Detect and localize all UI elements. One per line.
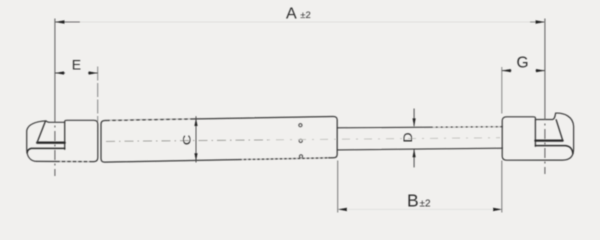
svg-text:B: B	[407, 190, 419, 210]
svg-text:±2: ±2	[420, 199, 431, 210]
svg-text:C: C	[181, 135, 194, 146]
dimension C bottom arrow	[194, 153, 197, 161]
svg-text:±2: ±2	[300, 10, 311, 21]
dimension E right arrow	[89, 71, 98, 74]
dimension D top arrow	[413, 118, 416, 126]
piston rod top edge	[337, 127, 502, 128]
vent hole middle	[299, 139, 302, 142]
dimension G line left segment	[502, 70, 512, 72]
dimension A line	[64, 21, 536, 23]
dimension B left extension line	[337, 161, 339, 213]
dimension B left arrow	[338, 208, 347, 211]
dimension G right arrow	[536, 69, 545, 72]
scan fade breaks on outlines	[60, 119, 500, 162]
vent hole bottom	[299, 155, 302, 158]
vent hole top	[299, 124, 302, 127]
dimension D line lower segment	[413, 149, 415, 167]
left fitting jaw lower line with inner corner arc	[27, 148, 65, 152]
dimension G left extension line	[501, 67, 503, 114]
svg-text:A: A	[286, 5, 297, 22]
part horizontal centerline	[106, 140, 268, 142]
right eye vertical centerline	[544, 19, 546, 111]
dimension C line	[195, 116, 197, 162]
left eye vertical centerline	[54, 19, 56, 113]
dimension B line	[347, 208, 493, 210]
dimension E line right segment	[88, 72, 98, 74]
dimension D line upper segment	[413, 109, 415, 127]
dimension G line right segment	[536, 70, 546, 72]
dimension C top arrow	[194, 118, 197, 126]
cylinder tube body	[101, 116, 337, 162]
dimension D bottom arrow	[413, 149, 416, 157]
piston rod bottom edge	[337, 148, 502, 150]
dimension B right arrow	[493, 208, 502, 211]
svg-text:G: G	[517, 54, 529, 71]
right eyelet fitting outer body	[502, 113, 573, 160]
dimension A right arrow	[536, 20, 546, 23]
dimension A left arrow	[55, 20, 65, 23]
right fitting jaw lower line with inner corner arc	[535, 146, 573, 154]
right fitting jaw thick lip line	[535, 139, 562, 141]
dimension E left arrow	[55, 71, 64, 74]
right fitting slot inner vertical edge	[534, 120, 536, 147]
left eyelet fitting outer body	[27, 120, 98, 161]
right fitting slot diagonal edge	[556, 120, 562, 140]
left fitting jaw thick lip line	[37, 142, 64, 144]
svg-text:E: E	[72, 57, 81, 73]
svg-text:D: D	[401, 132, 415, 142]
left fitting slot diagonal edge	[37, 121, 45, 142]
dimension E line left segment	[55, 72, 65, 74]
dimension E extension line	[97, 67, 99, 122]
left fitting slot inner vertical edge	[64, 122, 66, 149]
dimension B right extension line	[501, 161, 503, 213]
dimension G left arrow	[502, 69, 511, 72]
